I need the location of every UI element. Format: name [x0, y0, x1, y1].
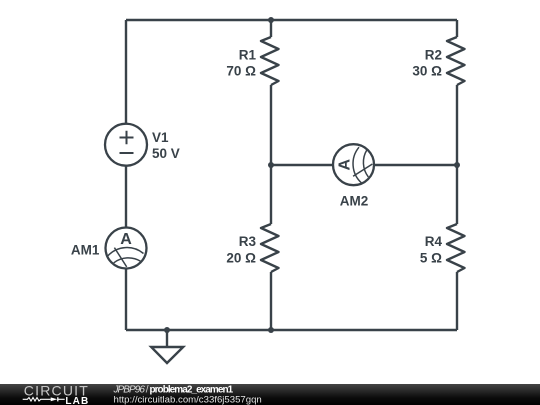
wire right rail R2 top lead	[456, 20, 458, 37]
resistor R1 zigzag	[261, 37, 279, 85]
wire V1 bottom to AM1 top	[125, 166, 127, 228]
wire middle column R1 top lead	[270, 20, 272, 37]
wire middle horizontal (node B to right rail)	[271, 164, 457, 166]
ground triangle	[151, 347, 183, 363]
svg-text:20 Ω: 20 Ω	[226, 251, 256, 266]
svg-text:50 V: 50 V	[152, 146, 180, 161]
ammeter AM1 circle	[106, 228, 147, 269]
svg-text:5 Ω: 5 Ω	[420, 251, 442, 266]
wire R1 bottom to R3 top (through mid junction)	[270, 85, 272, 224]
wire top horizontal	[126, 19, 457, 21]
svg-text:http://circuitlab.com/c33f6j53: http://circuitlab.com/c33f6j5357gqn	[114, 395, 262, 405]
voltage source V1 circle	[105, 124, 147, 166]
svg-text:V1: V1	[152, 130, 169, 145]
svg-text:30 Ω: 30 Ω	[412, 64, 442, 79]
node junction dot middle left (R1/R3/AM2 wire)	[268, 162, 274, 168]
node junction dot top (R1/top wire)	[268, 17, 274, 23]
wire R4 bottom to bottom wire	[456, 272, 458, 330]
svg-text:AM2: AM2	[340, 194, 369, 209]
node junction dot middle right (R2/R4/AM2 wire)	[454, 162, 460, 168]
footer logo diode symbol	[51, 397, 65, 401]
svg-text:R1: R1	[239, 48, 257, 63]
svg-text:R2: R2	[425, 48, 442, 63]
wire R2 bottom to R4 top (through mid junction)	[456, 85, 458, 224]
footer bar	[0, 384, 540, 405]
resistor R4 zigzag	[447, 224, 465, 272]
svg-text:A: A	[337, 158, 354, 170]
svg-text:AM1: AM1	[71, 242, 100, 257]
wire bottom horizontal	[126, 329, 457, 331]
svg-text:R4: R4	[425, 234, 443, 249]
svg-text:A: A	[120, 231, 132, 248]
ground stem	[166, 330, 168, 347]
wire AM1 bottom to bottom-left corner	[125, 269, 127, 331]
node junction dot bottom (R3/bottom wire)	[268, 327, 274, 333]
resistor R3 zigzag	[261, 224, 279, 272]
wire left rail top: top-left corner to V1 top	[125, 20, 127, 124]
node junction dot ground	[164, 327, 170, 333]
svg-text:LAB: LAB	[65, 396, 89, 405]
ammeter AM2 circle	[333, 144, 374, 185]
V1 minus sign	[120, 152, 134, 154]
ammeter AM2 internals (rotated 90 CCW)	[337, 147, 373, 183]
ammeter AM1 internals: letter A, scale arcs, needle	[108, 231, 144, 267]
footer logo resistor squiggle	[23, 398, 51, 402]
V1 plus sign	[120, 131, 134, 145]
svg-text:70 Ω: 70 Ω	[226, 64, 256, 79]
svg-text:R3: R3	[239, 234, 257, 249]
resistor R2 zigzag	[447, 37, 465, 85]
wire R3 bottom to bottom wire	[270, 272, 272, 330]
